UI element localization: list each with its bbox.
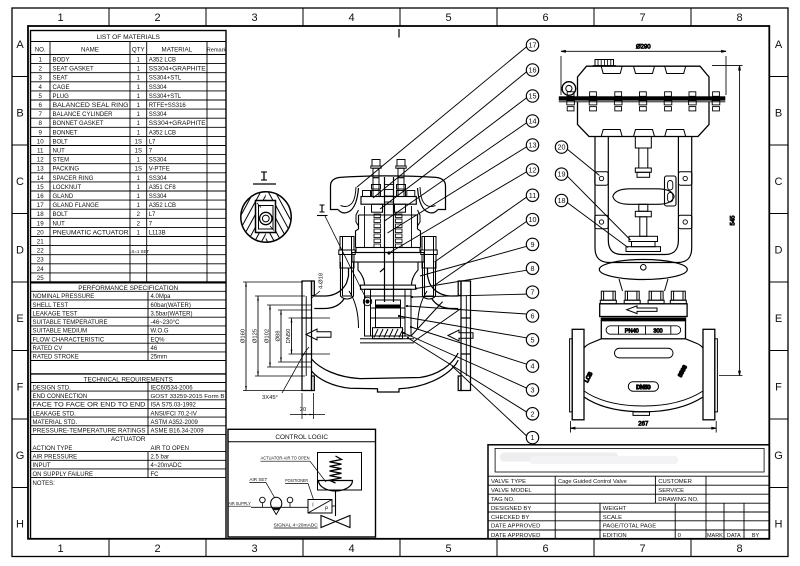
- section yoke wings: [331, 176, 446, 248]
- svg-text:DATE APPROVED: DATE APPROVED: [491, 533, 540, 539]
- spring housing: [318, 453, 362, 491]
- svg-text:10: 10: [37, 138, 44, 145]
- dim 290: [561, 45, 726, 95]
- balloon 5: [398, 315, 539, 346]
- svg-text:SS304: SS304: [149, 112, 168, 118]
- svg-text:CONTROL LOGIC: CONTROL LOGIC: [275, 434, 328, 441]
- gland flange bottom line across neck: [359, 214, 418, 216]
- detail I label: [253, 172, 276, 184]
- list of materials table: [31, 31, 227, 283]
- svg-text:-46~230°C: -46~230°C: [151, 320, 181, 326]
- svg-text:1: 1: [38, 57, 42, 64]
- svg-text:18: 18: [37, 211, 44, 218]
- svg-text:AIR SUPPLY: AIR SUPPLY: [228, 501, 251, 506]
- balloon 13: [388, 139, 539, 233]
- svg-text:DESIGN STD.: DESIGN STD.: [33, 385, 72, 391]
- svg-text:2: 2: [531, 409, 535, 418]
- svg-text:MARK: MARK: [707, 533, 723, 539]
- svg-text:H: H: [775, 519, 783, 531]
- balloon 7: [411, 286, 539, 298]
- svg-text:3: 3: [38, 75, 42, 82]
- svg-text:A352 LCB: A352 LCB: [149, 130, 176, 136]
- external bonnet body: [601, 321, 685, 339]
- svg-text:SCALE: SCALE: [603, 515, 622, 521]
- air set filter: [271, 497, 282, 514]
- svg-text:NUT: NUT: [53, 149, 66, 155]
- bonnet stud bolt at x=347.0: [339, 237, 355, 297]
- balloon 17: [357, 39, 539, 187]
- svg-text:NOMINAL PRESSURE: NOMINAL PRESSURE: [33, 294, 95, 300]
- svg-text:1S=1 SET: 1S=1 SET: [129, 249, 149, 254]
- svg-text:INPUT: INPUT: [33, 463, 51, 469]
- svg-text:12: 12: [37, 157, 44, 164]
- svg-text:267: 267: [638, 422, 649, 428]
- svg-text:DATA: DATA: [727, 533, 741, 539]
- svg-text:SUITABLE TEMPERATURE: SUITABLE TEMPERATURE: [33, 320, 108, 326]
- svg-text:2.5 bar: 2.5 bar: [151, 454, 170, 460]
- svg-text:WEIGHT: WEIGHT: [603, 506, 627, 512]
- svg-text:5: 5: [38, 93, 42, 100]
- svg-text:6: 6: [542, 12, 548, 24]
- svg-text:D: D: [16, 245, 24, 257]
- svg-text:AIR PRESSURE: AIR PRESSURE: [33, 454, 78, 460]
- svg-text:Ø88: Ø88: [276, 331, 282, 342]
- svg-text:5: 5: [531, 335, 535, 344]
- locknut and spacer bands across stem: [385, 185, 394, 203]
- svg-text:SS304+GRAPHITE: SS304+GRAPHITE: [149, 67, 206, 73]
- svg-text:DATE APPROVED: DATE APPROVED: [491, 524, 540, 530]
- svg-text:BODY: BODY: [53, 58, 70, 64]
- svg-text:BALANCED SEAL RING: BALANCED SEAL RING: [53, 103, 129, 109]
- svg-text:1S: 1S: [135, 139, 142, 145]
- svg-text:ASTM A352-2009: ASTM A352-2009: [151, 420, 199, 426]
- svg-text:10: 10: [529, 215, 537, 224]
- svg-text:MATERIAL STD.: MATERIAL STD.: [33, 420, 78, 426]
- svg-text:300: 300: [653, 328, 662, 334]
- gasket band: [601, 318, 687, 321]
- svg-text:PN40: PN40: [625, 328, 639, 334]
- svg-text:NOTES:: NOTES:: [33, 481, 56, 487]
- performance specification text: [33, 285, 225, 487]
- svg-text:7: 7: [531, 288, 535, 297]
- svg-text:GLAND FLANGE: GLAND FLANGE: [53, 203, 99, 209]
- svg-text:16: 16: [529, 66, 537, 75]
- packing strips: [374, 214, 402, 248]
- svg-text:23: 23: [37, 257, 44, 264]
- svg-text:19: 19: [37, 220, 44, 227]
- gauges: [260, 497, 293, 507]
- svg-text:7: 7: [639, 12, 645, 24]
- svg-text:A352 LCB: A352 LCB: [149, 58, 176, 64]
- nameplate PN40 300: [606, 326, 681, 335]
- svg-text:A: A: [775, 39, 783, 51]
- actuator stem line: [335, 490, 337, 516]
- svg-text:MATERIAL: MATERIAL: [162, 47, 193, 54]
- svg-text:Remark: Remark: [207, 48, 227, 54]
- svg-text:RTFE+SS316: RTFE+SS316: [149, 103, 187, 109]
- svg-text:16: 16: [37, 193, 44, 200]
- svg-text:TAG NO.: TAG NO.: [491, 497, 515, 503]
- svg-text:FC: FC: [151, 472, 160, 478]
- svg-text:BALANCE CYLINDER: BALANCE CYLINDER: [53, 112, 114, 118]
- svg-text:SS304+STL: SS304+STL: [149, 94, 182, 100]
- svg-text:ON SUPPLY FAILURE: ON SUPPLY FAILURE: [33, 472, 93, 478]
- section bonnet body: [358, 262, 418, 289]
- svg-text:SEAT: SEAT: [53, 76, 69, 82]
- svg-text:4-Ø18: 4-Ø18: [319, 273, 325, 289]
- svg-text:C: C: [16, 176, 24, 188]
- svg-text:AIR TO OPEN: AIR TO OPEN: [151, 446, 189, 452]
- control logic labels: [228, 456, 326, 528]
- svg-text:BOLT: BOLT: [53, 139, 69, 145]
- balloon 11: [435, 189, 539, 262]
- svg-text:VALVE TYPE: VALVE TYPE: [491, 479, 526, 485]
- svg-text:15: 15: [37, 184, 44, 191]
- svg-text:CAGE: CAGE: [53, 85, 70, 91]
- svg-text:3: 3: [251, 12, 257, 24]
- svg-text:IEC60534-2006: IEC60534-2006: [151, 385, 194, 391]
- grid numbers top: [57, 12, 742, 24]
- svg-text:12: 12: [529, 166, 537, 175]
- svg-text:25mm: 25mm: [151, 355, 168, 361]
- svg-text:3: 3: [251, 543, 257, 555]
- svg-text:ACTUATOR: ACTUATOR: [111, 436, 146, 443]
- svg-text:BONNET: BONNET: [53, 130, 78, 136]
- air supply pipe: [251, 506, 308, 508]
- svg-text:20: 20: [558, 143, 566, 152]
- svg-text:BONNET GASKET: BONNET GASKET: [53, 121, 104, 127]
- svg-text:I: I: [312, 503, 313, 509]
- svg-text:18: 18: [558, 196, 566, 205]
- gland follower: [372, 204, 383, 212]
- svg-text:4: 4: [348, 543, 354, 555]
- svg-text:F: F: [775, 382, 782, 394]
- svg-text:QTY: QTY: [132, 47, 145, 54]
- section dim lines left: [241, 282, 331, 391]
- svg-text:EDITION: EDITION: [603, 533, 627, 539]
- svg-text:SS304+STL: SS304+STL: [149, 76, 182, 82]
- svg-text:14: 14: [37, 175, 44, 182]
- svg-text:EQ%: EQ%: [151, 337, 166, 343]
- svg-text:TECHNICAL REQUIREMENTS: TECHNICAL REQUIREMENTS: [84, 376, 173, 383]
- svg-text:SS304: SS304: [149, 194, 168, 200]
- dim 545: [712, 66, 743, 376]
- svg-text:SHELL TEST: SHELL TEST: [33, 303, 69, 309]
- valve bowtie symbol: [321, 516, 350, 528]
- svg-text:Ø160: Ø160: [241, 329, 247, 343]
- svg-text:DN50: DN50: [636, 385, 650, 391]
- section right flange: [458, 281, 470, 391]
- svg-text:6: 6: [38, 102, 42, 109]
- svg-text:1S: 1S: [135, 149, 142, 155]
- external valve body: [584, 339, 703, 416]
- flange band bolts: [567, 92, 720, 111]
- svg-text:11: 11: [37, 148, 44, 155]
- svg-text:L7: L7: [149, 212, 156, 218]
- diaphragm flange band: [559, 96, 726, 100]
- svg-text:F: F: [17, 382, 24, 394]
- title block text: [491, 479, 759, 539]
- vent cap on dome: [593, 60, 617, 66]
- external bonnet bolts: [600, 291, 686, 304]
- grid numbers bottom: [57, 543, 742, 555]
- yoke pads with holes: [595, 172, 608, 185]
- svg-text:RATED CV: RATED CV: [33, 346, 63, 352]
- svg-text:AIR SET: AIR SET: [249, 477, 267, 482]
- svg-text:1: 1: [57, 543, 63, 555]
- svg-text:4: 4: [531, 362, 535, 371]
- positioner box: [308, 500, 332, 514]
- svg-text:22: 22: [37, 248, 44, 255]
- section seat ring: [360, 328, 414, 343]
- svg-text:VALVE MODEL: VALVE MODEL: [491, 488, 532, 494]
- svg-text:PACKING: PACKING: [53, 167, 80, 173]
- section view centerline tick: [398, 29, 400, 38]
- svg-text:C: C: [775, 176, 783, 188]
- section body outline: [302, 268, 471, 392]
- svg-text:2: 2: [154, 543, 160, 555]
- svg-text:1S: 1S: [135, 167, 142, 173]
- svg-text:14: 14: [529, 117, 537, 126]
- svg-text:17: 17: [37, 202, 44, 209]
- svg-text:LOCKNUT: LOCKNUT: [53, 185, 82, 191]
- flow arrow left: [306, 329, 331, 340]
- svg-text:8: 8: [38, 120, 42, 127]
- svg-text:SIGNAL 4~20mADC: SIGNAL 4~20mADC: [274, 523, 319, 528]
- svg-text:7: 7: [38, 111, 42, 118]
- svg-text:DRAWING NO.: DRAWING NO.: [658, 497, 699, 503]
- grid letters right: [774, 39, 783, 531]
- svg-text:SUITABLE MEDIUM: SUITABLE MEDIUM: [33, 329, 88, 335]
- 4-018 bolt hole label: [311, 273, 325, 299]
- svg-text:SS304: SS304: [149, 176, 168, 182]
- svg-text:A352 LCB: A352 LCB: [149, 203, 176, 209]
- svg-text:ASME B16.34-2009: ASME B16.34-2009: [151, 429, 205, 435]
- svg-text:3X45°: 3X45°: [262, 395, 278, 401]
- seat hatch: [374, 329, 403, 338]
- section neck: [356, 215, 421, 248]
- svg-text:13: 13: [529, 141, 537, 150]
- control logic box: [228, 429, 376, 537]
- svg-text:6: 6: [542, 543, 548, 555]
- svg-text:NAME: NAME: [81, 47, 99, 54]
- svg-text:B: B: [16, 108, 23, 120]
- svg-text:ACTION TYPE: ACTION TYPE: [33, 446, 73, 452]
- svg-text:5: 5: [445, 12, 451, 24]
- svg-text:PRESSURE-TEMPERATURE RATINGS: PRESSURE-TEMPERATURE RATINGS: [33, 429, 146, 435]
- svg-text:9: 9: [38, 129, 42, 136]
- svg-text:G: G: [16, 450, 25, 462]
- svg-text:FACE TO FACE OR END TO END: FACE TO FACE OR END TO END: [33, 403, 147, 409]
- svg-text:GLAND: GLAND: [53, 194, 74, 200]
- svg-text:Ø102: Ø102: [265, 329, 271, 343]
- svg-text:W.O.G: W.O.G: [151, 329, 169, 335]
- svg-text:E: E: [16, 313, 23, 325]
- svg-text:LIST OF MATERIALS: LIST OF MATERIALS: [96, 34, 160, 41]
- svg-text:3: 3: [531, 386, 535, 395]
- svg-text:PLUG: PLUG: [53, 94, 70, 100]
- svg-text:4: 4: [348, 12, 354, 24]
- actuator dome bottom case: [578, 102, 710, 137]
- yoke legs: [595, 137, 692, 263]
- svg-text:1: 1: [57, 12, 63, 24]
- balloon 8: [415, 262, 539, 290]
- gland flange end bolts: [363, 191, 371, 197]
- svg-text:20: 20: [37, 229, 44, 236]
- spring: [330, 456, 342, 483]
- svg-text:2: 2: [154, 12, 160, 24]
- svg-text:DN50: DN50: [286, 329, 292, 344]
- svg-text:ACTUATOR-AIR TO OPEN: ACTUATOR-AIR TO OPEN: [261, 456, 310, 461]
- svg-text:ANSI/FCI 70.2-IV: ANSI/FCI 70.2-IV: [151, 411, 197, 417]
- title block frame: [488, 445, 769, 539]
- svg-text:E: E: [775, 313, 782, 325]
- svg-text:NO.: NO.: [35, 47, 46, 54]
- svg-text:1: 1: [531, 433, 535, 442]
- title block logo area: [495, 448, 764, 472]
- performance specification table: [31, 283, 227, 539]
- svg-text:V-PTFE: V-PTFE: [149, 167, 170, 173]
- svg-text:STEM: STEM: [53, 158, 70, 164]
- svg-text:SS304+GRAPHITE: SS304+GRAPHITE: [149, 121, 206, 127]
- svg-text:A351 CF8: A351 CF8: [149, 185, 177, 191]
- svg-text:19: 19: [558, 170, 566, 179]
- 3X45 chamfer label: [262, 347, 309, 401]
- balloon 6: [406, 305, 539, 322]
- section left flange: [302, 281, 314, 391]
- svg-text:46: 46: [151, 346, 158, 352]
- balloon 16: [373, 64, 539, 198]
- svg-text:Cage Guided Control Valve: Cage Guided Control Valve: [558, 479, 627, 485]
- balloon 3: [403, 332, 539, 396]
- balloon 10: [434, 213, 539, 286]
- svg-text:11: 11: [529, 191, 536, 200]
- balloon 12: [387, 164, 538, 255]
- svg-text:RATED STROKE: RATED STROKE: [33, 355, 79, 361]
- svg-text:B: B: [775, 108, 782, 120]
- detail reference circle on section: [363, 297, 371, 305]
- dim 267: [571, 421, 717, 433]
- svg-text:ISA S75.03-1992: ISA S75.03-1992: [151, 403, 197, 409]
- svg-text:8: 8: [736, 543, 742, 555]
- section plug: [376, 300, 401, 328]
- svg-text:13: 13: [37, 166, 44, 173]
- detail reference I label on section: [317, 205, 366, 298]
- svg-text:END CONNECTION: END CONNECTION: [33, 394, 88, 400]
- balloon 15: [380, 90, 539, 209]
- svg-text:PERFORMANCE SPECIFICATION: PERFORMANCE SPECIFICATION: [78, 285, 178, 292]
- svg-text:DESIGNED BY: DESIGNED BY: [491, 506, 531, 512]
- svg-text:25: 25: [37, 275, 44, 282]
- svg-text:21: 21: [37, 239, 44, 246]
- svg-text:15: 15: [529, 92, 537, 101]
- bonnet stud bolt at x=429.0: [421, 237, 437, 297]
- flow arrow right: [448, 330, 473, 341]
- svg-text:GOST 33259-2015 Form B: GOST 33259-2015 Form B: [151, 394, 225, 400]
- svg-text:H: H: [16, 519, 24, 531]
- svg-text:7: 7: [639, 543, 645, 555]
- svg-text:G: G: [774, 450, 783, 462]
- external bonnet flange with flow arrow: [600, 304, 687, 317]
- svg-text:SPACER RING: SPACER RING: [53, 176, 94, 182]
- balloon 1: [452, 366, 539, 444]
- svg-text:L7: L7: [149, 139, 156, 145]
- gland flange bar: [361, 197, 416, 205]
- svg-text:D: D: [775, 245, 783, 257]
- svg-text:NUT: NUT: [53, 221, 66, 227]
- svg-text:FLOW CHARACTERISTIC: FLOW CHARACTERISTIC: [33, 337, 105, 343]
- svg-text:4~20mADC: 4~20mADC: [151, 463, 183, 469]
- diaphragm bowl: [319, 481, 353, 492]
- svg-text:LEAKAGE TEST: LEAKAGE TEST: [33, 311, 78, 317]
- svg-text:17: 17: [529, 41, 537, 50]
- yoke bottom oval boss: [599, 260, 687, 292]
- svg-text:3.5bar(WATER): 3.5bar(WATER): [151, 311, 193, 317]
- svg-text:5: 5: [445, 543, 451, 555]
- svg-text:4.0Mpa: 4.0Mpa: [151, 294, 172, 300]
- svg-text:6: 6: [531, 312, 535, 321]
- svg-text:CHECKED BY: CHECKED BY: [491, 515, 529, 521]
- travel scale plate: [665, 176, 677, 206]
- svg-text:BOLT: BOLT: [53, 212, 69, 218]
- eye bolt: [562, 82, 576, 96]
- actuator stem assembly: [613, 137, 674, 237]
- svg-text:CUSTOMER: CUSTOMER: [658, 479, 692, 485]
- svg-text:60bar(WATER): 60bar(WATER): [151, 303, 191, 309]
- grid letters left: [16, 39, 25, 531]
- actuator dome top case: [578, 66, 710, 100]
- svg-text:PAGE/TOTAL PAGE: PAGE/TOTAL PAGE: [603, 524, 656, 530]
- svg-text:4: 4: [38, 84, 42, 91]
- svg-text:PNEUMATIC ACTUATOR: PNEUMATIC ACTUATOR: [53, 230, 130, 236]
- svg-text:20: 20: [300, 407, 306, 413]
- balloon 4: [410, 326, 539, 372]
- svg-text:2: 2: [38, 66, 42, 73]
- gland studs: [372, 178, 381, 197]
- external valve flanges: [570, 329, 718, 420]
- svg-text:9: 9: [531, 240, 535, 249]
- stem clamp stack: [626, 236, 661, 251]
- balloon 9: [420, 238, 539, 276]
- svg-text:SS304: SS304: [149, 158, 168, 164]
- svg-text:SEAT GASKET: SEAT GASKET: [53, 67, 94, 73]
- gland stud tops above wings: [371, 160, 381, 178]
- svg-text:A: A: [16, 39, 24, 51]
- svg-text:Ø125: Ø125: [253, 329, 259, 343]
- svg-text:SS304: SS304: [149, 85, 168, 91]
- svg-text:SERVICE: SERVICE: [658, 488, 684, 494]
- svg-text:8: 8: [736, 12, 742, 24]
- section bonnet flange and bolts: [341, 248, 436, 300]
- list of materials text: [35, 34, 227, 282]
- svg-text:545: 545: [731, 215, 737, 226]
- svg-text:BY: BY: [752, 533, 760, 539]
- svg-text:POSITIONER: POSITIONER: [285, 478, 309, 483]
- section cage: [365, 289, 412, 336]
- balloon 2: [407, 337, 539, 420]
- svg-text:8: 8: [531, 264, 535, 273]
- balloons 18 19 20: [555, 141, 599, 176]
- svg-text:Ø290: Ø290: [636, 45, 651, 51]
- svg-text:LEAKAGE STD.: LEAKAGE STD.: [33, 411, 77, 417]
- balloon 14: [385, 115, 539, 221]
- dim 20 flange thickness: [290, 393, 325, 419]
- svg-text:L113B: L113B: [149, 230, 166, 236]
- svg-text:24: 24: [37, 266, 44, 273]
- section stem: [380, 177, 394, 302]
- faint logo smudge: [500, 453, 678, 465]
